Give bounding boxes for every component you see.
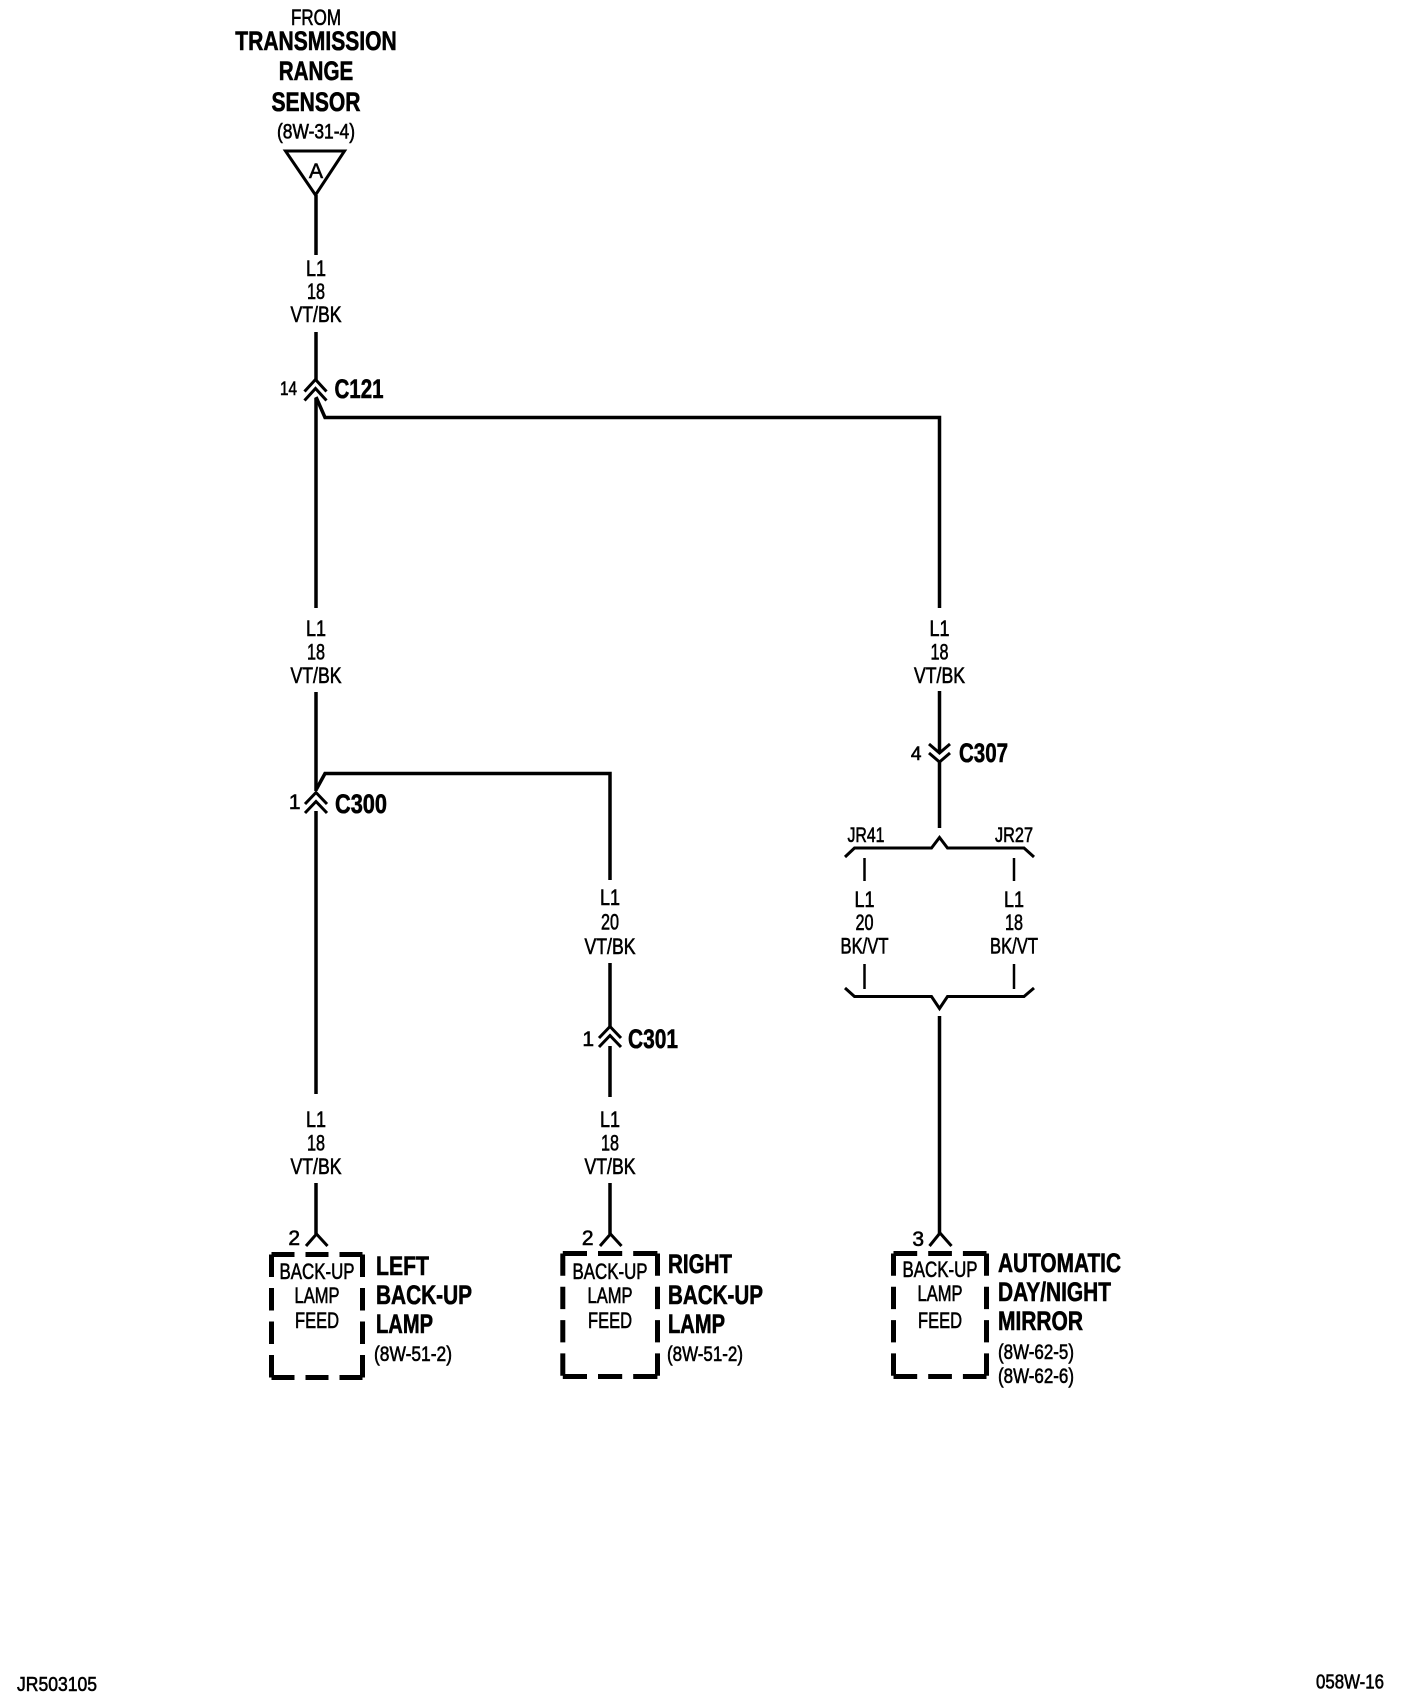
svg-text:FEED: FEED [918, 1308, 962, 1333]
wire label L1 18 BK/VT (JR27) [990, 887, 1038, 959]
svg-text:18: 18 [601, 1131, 619, 1156]
svg-text:FEED: FEED [295, 1308, 339, 1333]
svg-text:18: 18 [307, 640, 325, 665]
svg-text:20: 20 [601, 910, 619, 935]
svg-text:DAY/NIGHT: DAY/NIGHT [998, 1277, 1111, 1307]
svg-text:VT/BK: VT/BK [291, 1154, 342, 1179]
svg-text:(8W-31-4): (8W-31-4) [277, 121, 355, 144]
svg-text:FEED: FEED [588, 1308, 632, 1333]
svg-text:AUTOMATIC: AUTOMATIC [998, 1248, 1121, 1278]
node FROM TRANSMISSION RANGE SENSOR title [235, 5, 397, 144]
svg-text:L1: L1 [930, 616, 950, 641]
node LEFT BACK-UP LAMP label [374, 1251, 472, 1366]
connector C121 symbol (double chevron) [305, 380, 327, 401]
wire down to C300 [314, 692, 318, 791]
svg-text:C307: C307 [959, 738, 1008, 768]
svg-text:L1: L1 [855, 887, 875, 912]
wire C300 down to left lamp [314, 811, 318, 1094]
svg-text:SENSOR: SENSOR [272, 87, 361, 117]
svg-text:RANGE: RANGE [279, 56, 354, 86]
splice upper brace [845, 838, 1034, 858]
left back-up lamp box (dashed) [272, 1252, 363, 1257]
connector C307 symbol (double chevron down) [929, 744, 950, 762]
svg-text:18: 18 [1005, 910, 1023, 935]
svg-text:2: 2 [288, 1227, 300, 1250]
svg-text:LAMP: LAMP [295, 1283, 340, 1308]
svg-text:(8W-62-6): (8W-62-6) [998, 1365, 1074, 1388]
wire label L1 18 VT/BK (left, mid) [291, 616, 342, 688]
svg-text:VT/BK: VT/BK [585, 1154, 636, 1179]
svg-text:L1: L1 [306, 256, 326, 281]
wire down to right lamp fork [608, 1183, 612, 1234]
splice branch stubs upper [863, 858, 866, 881]
svg-text:L1: L1 [600, 885, 620, 910]
svg-text:C300: C300 [335, 789, 387, 819]
svg-text:TRANSMISSION: TRANSMISSION [235, 26, 397, 56]
svg-text:LAMP: LAMP [668, 1309, 725, 1339]
svg-text:C301: C301 [628, 1024, 678, 1054]
svg-text:VT/BK: VT/BK [585, 934, 636, 959]
wire label L1 18 VT/BK (right column upper) [914, 616, 965, 688]
terminal fork right lamp [600, 1234, 622, 1246]
wire below C121 [314, 398, 318, 608]
mirror box (dashed) [894, 1251, 987, 1256]
terminal fork left lamp [306, 1234, 328, 1246]
svg-text:RIGHT: RIGHT [668, 1249, 732, 1279]
wire below C301 [608, 1046, 612, 1097]
svg-text:BACK-UP: BACK-UP [280, 1259, 355, 1284]
svg-text:1: 1 [289, 791, 301, 814]
wire label L1 18 VT/BK (middle, lower) [585, 1107, 636, 1179]
svg-text:BACK-UP: BACK-UP [573, 1259, 648, 1284]
svg-text:(8W-51-2): (8W-51-2) [374, 1343, 452, 1366]
svg-text:L1: L1 [306, 616, 326, 641]
svg-text:VT/BK: VT/BK [291, 663, 342, 688]
svg-text:2: 2 [582, 1227, 594, 1250]
svg-text:BACK-UP: BACK-UP [376, 1280, 472, 1310]
connector C301 symbol (double chevron) [599, 1027, 621, 1048]
wire branch from C300 to middle column [317, 774, 611, 881]
box text BACK-UP LAMP FEED (mirror) [903, 1257, 978, 1333]
svg-text:LAMP: LAMP [588, 1283, 633, 1308]
svg-text:BK/VT: BK/VT [841, 934, 889, 959]
svg-text:4: 4 [911, 744, 922, 765]
node AUTOMATIC DAY/NIGHT MIRROR label [998, 1248, 1121, 1388]
splice lower brace [845, 988, 1034, 1009]
off-page connector triangle A [286, 151, 345, 195]
wire down to C121 [314, 332, 318, 380]
svg-text:C121: C121 [335, 374, 384, 404]
box text BACK-UP LAMP FEED (left) [280, 1259, 355, 1333]
svg-text:18: 18 [307, 279, 325, 304]
svg-text:L1: L1 [306, 1107, 326, 1132]
wire label L1 18 VT/BK (top) [291, 256, 342, 327]
connector C300 symbol (double chevron) [305, 793, 327, 814]
svg-text:A: A [309, 160, 323, 183]
svg-text:1: 1 [582, 1028, 594, 1051]
wire splice down to mirror fork [938, 1016, 942, 1234]
svg-text:JR41: JR41 [848, 824, 885, 847]
svg-text:MIRROR: MIRROR [998, 1306, 1083, 1336]
svg-text:058W-16: 058W-16 [1316, 1672, 1384, 1694]
svg-text:L1: L1 [1004, 887, 1024, 912]
svg-text:LAMP: LAMP [918, 1281, 963, 1306]
wire down to left lamp fork [314, 1183, 318, 1234]
svg-text:JR27: JR27 [995, 824, 1033, 847]
svg-text:18: 18 [931, 640, 949, 665]
splice branch stubs lower [863, 964, 866, 989]
wire label L1 18 VT/BK (left, lower) [291, 1107, 342, 1179]
svg-text:(8W-51-2): (8W-51-2) [667, 1343, 743, 1366]
svg-text:3: 3 [912, 1228, 924, 1251]
svg-text:BACK-UP: BACK-UP [668, 1280, 763, 1310]
svg-text:VT/BK: VT/BK [914, 663, 965, 688]
svg-text:LAMP: LAMP [376, 1309, 433, 1339]
wire from triangle A down [314, 195, 318, 255]
wire branch from C121 to right column [316, 397, 940, 608]
box text BACK-UP LAMP FEED (middle) [573, 1259, 648, 1333]
svg-text:LEFT: LEFT [376, 1251, 429, 1281]
node RIGHT BACK-UP LAMP label [667, 1249, 763, 1366]
svg-text:18: 18 [307, 1131, 325, 1156]
wire down to C307 [938, 691, 942, 753]
svg-text:(8W-62-5): (8W-62-5) [998, 1341, 1074, 1364]
svg-text:20: 20 [856, 910, 874, 935]
svg-text:VT/BK: VT/BK [291, 302, 342, 327]
terminal fork mirror [930, 1233, 952, 1246]
wire label L1 20 VT/BK (middle column) [585, 885, 636, 959]
svg-text:JR503105: JR503105 [17, 1674, 97, 1696]
wire C307 down to splice [938, 762, 942, 828]
wire down to C301 [608, 963, 612, 1027]
svg-text:L1: L1 [600, 1107, 620, 1132]
wire label L1 20 BK/VT (JR41) [841, 887, 889, 959]
svg-text:BACK-UP: BACK-UP [903, 1257, 978, 1282]
svg-text:BK/VT: BK/VT [990, 934, 1038, 959]
svg-text:14: 14 [280, 379, 297, 400]
right back-up lamp box (dashed) [563, 1251, 658, 1256]
